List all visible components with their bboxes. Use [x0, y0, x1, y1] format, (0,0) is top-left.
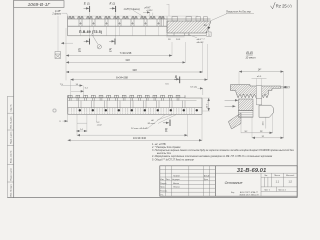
svg-text:АЛ-9 ГОСТ 4784-77: АЛ-9 ГОСТ 4784-77	[239, 191, 259, 194]
svg-text:Е: Е	[78, 46, 81, 51]
svg-text:Основание: Основание	[225, 181, 243, 185]
svg-text:⌀5.5⁺⁰·³: ⌀5.5⁺⁰·³	[197, 38, 205, 41]
top view tip line	[68, 15, 198, 17]
svg-text:(√): (√)	[288, 4, 292, 8]
lower section arrows E K	[78, 39, 115, 52]
small bracket top left of dims	[61, 42, 73, 44]
svg-text:1×45°(4 фаски): 1×45°(4 фаски)	[124, 8, 140, 11]
svg-text:Утв.: Утв.	[160, 194, 164, 196]
title block small right texts	[264, 175, 294, 191]
small vertical tick near transition	[167, 4, 170, 16]
svg-text:2 фаски: 2 фаски	[51, 12, 61, 15]
svg-text:Масса: Масса	[275, 175, 282, 177]
svg-text:Иванов: Иванов	[173, 183, 179, 185]
svg-text:Rz 25: Rz 25	[276, 4, 288, 9]
svg-text:ВООБ ОСТ 190.0-70: ВООБ ОСТ 190.0-70	[240, 195, 260, 197]
counterbore note	[188, 35, 205, 44]
datum circle symbol	[97, 45, 101, 49]
base box 1	[207, 32, 211, 37]
frame bottom line	[7, 197, 297, 199]
front view mid lines	[68, 100, 197, 102]
hole note	[148, 115, 177, 126]
svg-text:8×34=288: 8×34=288	[116, 75, 128, 79]
top view plate front edge	[68, 35, 206, 37]
dim row 3	[66, 42, 203, 72]
svg-text:Листов 1: Листов 1	[278, 189, 286, 191]
svg-text:Покрытие Ан.Окс.нхр: Покрытие Ан.Окс.нхр	[226, 11, 252, 14]
dim row 2	[66, 42, 185, 63]
left margin rotated labels	[9, 104, 12, 197]
hole note 2	[131, 115, 165, 130]
svg-text:Лит.: Лит.	[264, 175, 268, 177]
svg-text:⌀4 Н7: ⌀4 Н7	[144, 6, 151, 9]
top-left designation box	[14, 1, 64, 8]
cut line K jog	[115, 12, 117, 39]
section label E (2) top	[84, 1, 90, 12]
svg-text:Лист: Лист	[166, 179, 170, 181]
svg-text:10 мест: 10 мест	[245, 56, 256, 60]
section arrow B bottom	[163, 120, 170, 132]
svg-text:1×45°: 1×45°	[55, 10, 61, 13]
svg-text:Подп. и дата: Подп. и дата	[10, 131, 12, 144]
section B-B left leaders	[225, 100, 238, 106]
top view serration bumps	[69, 16, 165, 19]
svg-text:№ докум.: № докум.	[172, 178, 180, 181]
svg-text:32 отв.: 32 отв.	[148, 123, 156, 125]
title block left texts	[160, 174, 210, 196]
channel centerlines to plate edge	[81, 26, 159, 36]
svg-text:Лист 1: Лист 1	[264, 189, 270, 191]
svg-text:1069-В-1Г: 1069-В-1Г	[28, 2, 51, 8]
coating note	[211, 11, 255, 21]
section label K (2) top	[110, 1, 116, 12]
small dims 7.5 16 5.2 above front view	[60, 80, 89, 95]
svg-text:П-В-69 (ТЗ.5): П-В-69 (ТЗ.5)	[79, 30, 102, 34]
svg-text:31-В-69.01: 31-В-69.01	[237, 168, 266, 174]
section B-B bottom dims	[241, 113, 284, 138]
top view bar outline	[68, 16, 211, 26]
svg-text:Инв.№ подл.: Инв.№ подл.	[9, 184, 12, 197]
section B-B slot continuation	[256, 99, 261, 105]
svg-text:23°: 23°	[260, 131, 263, 133]
svg-text:3. Непокрытые жирные панели с: 3. Непокрытые жирные панели состыков буд…	[152, 149, 295, 152]
front view teeth	[68, 95, 180, 100]
section B-B label	[245, 50, 256, 60]
dim 13.5 right	[202, 98, 210, 111]
svg-text:+0.012: +0.012	[146, 10, 153, 12]
svg-text:Разраб.: Разраб.	[160, 183, 167, 185]
svg-text:Кор.: Кор.	[231, 192, 235, 194]
sheet background	[0, 0, 300, 200]
roughness mark top right	[271, 2, 292, 9]
dia 4 H7 dim	[143, 6, 153, 16]
svg-text:Подп. и дата: Подп. и дата	[10, 167, 12, 180]
svg-text:Масштаб: Масштаб	[286, 175, 294, 177]
section B-B right tab lines	[281, 86, 290, 88]
svg-text:10×34=340: 10×34=340	[133, 136, 147, 140]
top view hatched end block	[167, 17, 211, 33]
small dims 28 / 24.3	[166, 37, 184, 41]
front view outline	[68, 95, 202, 114]
svg-text:16°: 16°	[244, 131, 247, 133]
title block	[160, 166, 297, 196]
section B-B top dim 14	[239, 69, 284, 139]
section B-B dim 5.5	[252, 75, 267, 86]
svg-text:Петров: Петров	[173, 187, 180, 189]
marking label П-В-69	[79, 30, 102, 45]
frame right line	[296, 0, 298, 198]
front view hole channels	[79, 101, 185, 108]
front view bottom comb	[68, 108, 196, 114]
svg-text:+0.02: +0.02	[97, 124, 103, 126]
svg-text:В-В: В-В	[246, 50, 253, 55]
svg-text:Взам. инв.№: Взам. инв.№	[9, 150, 12, 163]
svg-text:Спр. №: Спр. №	[9, 104, 12, 112]
svg-text:7×34=238: 7×34=238	[120, 51, 132, 55]
bottom dim front view	[68, 115, 202, 141]
svg-text:Н.контр.: Н.контр.	[160, 191, 167, 193]
dim 6.5 bracket right end	[198, 88, 203, 95]
svg-text:Дата: Дата	[204, 179, 208, 181]
svg-text:13.5₋₀.₁: 13.5₋₀.₁	[207, 100, 209, 108]
svg-text:12 отв. ⌀3.4×45°: 12 отв. ⌀3.4×45°	[131, 127, 149, 130]
left margin column	[7, 96, 13, 197]
punch hole mark	[53, 109, 56, 112]
step below hatch	[167, 33, 189, 36]
svg-text:Т3.82-В: Т3.82-В	[173, 175, 180, 177]
section B-B mid hatched block	[239, 99, 254, 117]
svg-text:328: 328	[132, 68, 137, 72]
dim row 1	[66, 42, 172, 56]
chamfer note mid	[124, 8, 148, 19]
top view transition lines	[162, 16, 168, 33]
section arrow B top	[174, 75, 180, 83]
left dims below front view	[59, 115, 187, 136]
svg-text:А∆: А∆	[203, 24, 208, 27]
svg-text:5. Общий ** (к/СП 27.9мг) по: 5. Общий ** (к/СП 27.9мг) по границе	[152, 158, 195, 161]
svg-text:Пров.: Пров.	[160, 187, 165, 189]
svg-text:АС5-В: АС5-В	[203, 174, 210, 177]
svg-text:Инв.№ дубл.: Инв.№ дубл.	[9, 116, 12, 129]
notes list	[151, 143, 295, 162]
front view holes	[79, 109, 198, 111]
section B-B left wedge	[228, 113, 241, 129]
svg-text:6.5 мм: 6.5 мм	[190, 87, 197, 89]
datum flag A	[203, 24, 211, 32]
dim row 4	[70, 44, 207, 80]
left extension line	[65, 28, 67, 80]
section B-B main hatched body	[230, 85, 280, 99]
section B-B right pentagon	[259, 105, 274, 117]
leader to tolerance frame	[57, 16, 59, 52]
chamfer note left	[51, 10, 67, 16]
svg-text:318: 318	[125, 58, 130, 62]
frame left line	[13, 0, 15, 198]
top view hole channels and crosses	[79, 19, 160, 26]
tolerance frame symbol left	[55, 52, 61, 59]
svg-text:14*: 14*	[258, 69, 262, 72]
section B-B dim 13.5 vertical	[263, 118, 266, 129]
cut line E	[89, 12, 91, 39]
